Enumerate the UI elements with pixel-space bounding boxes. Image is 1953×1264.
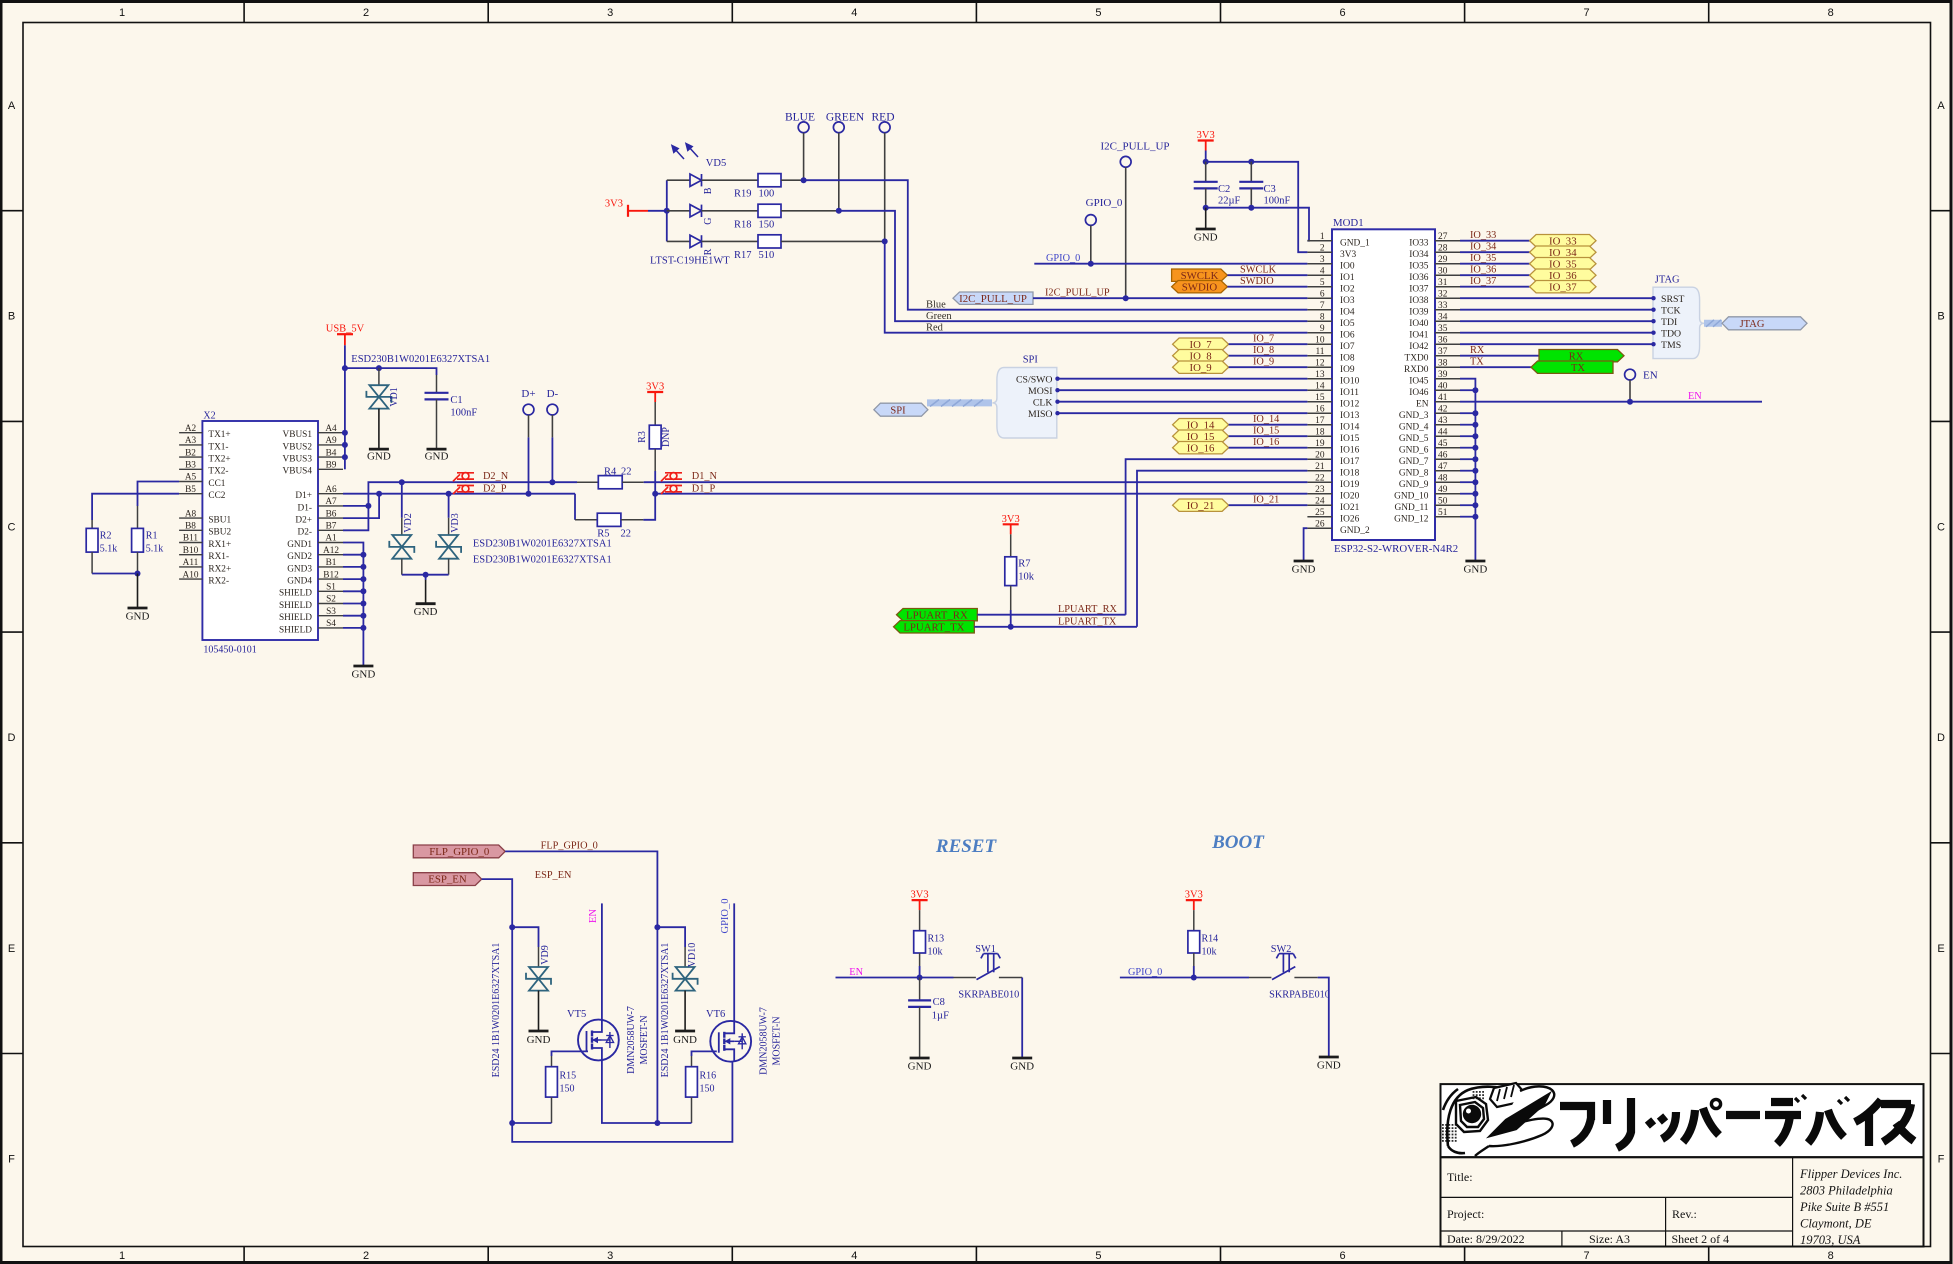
harness JTAG box bbox=[1653, 287, 1704, 358]
svg-text:D1+: D1+ bbox=[295, 491, 312, 501]
svg-text:GND_3: GND_3 bbox=[1399, 411, 1429, 421]
TVS diode VD10 bbox=[676, 967, 695, 979]
logo katakana long-dash bbox=[1726, 1111, 1760, 1119]
svg-text:RXD0: RXD0 bbox=[1404, 365, 1429, 375]
svg-text:GND: GND bbox=[351, 669, 375, 681]
port RX bbox=[1539, 350, 1624, 362]
port IO_34 bbox=[1530, 246, 1596, 258]
svg-text:8: 8 bbox=[1320, 313, 1325, 323]
svg-text:GND: GND bbox=[1463, 564, 1487, 576]
X2 pin A1 GND1 bbox=[318, 542, 343, 544]
X2 pin A10 RX2- bbox=[179, 578, 202, 580]
svg-text:ESP_EN: ESP_EN bbox=[535, 870, 572, 881]
svg-text:CC1: CC1 bbox=[208, 479, 225, 489]
svg-text:7: 7 bbox=[1584, 7, 1590, 19]
svg-text:CLK: CLK bbox=[1033, 397, 1053, 408]
X2 pin B2 TX2+ bbox=[179, 456, 202, 458]
svg-text:SWDIO: SWDIO bbox=[1182, 281, 1218, 293]
lead R1 top bbox=[137, 506, 139, 528]
X2 pin B9 VBUS4 bbox=[318, 468, 343, 470]
junction shield row 13 bbox=[360, 588, 366, 594]
svg-text:100: 100 bbox=[759, 189, 775, 200]
wire IO_21 bbox=[1229, 504, 1308, 506]
svg-text:F: F bbox=[8, 1154, 15, 1166]
svg-text:51: 51 bbox=[1438, 508, 1448, 518]
logo dolphin eye bbox=[1463, 1105, 1481, 1123]
X2 pin A8 SBU1 bbox=[179, 517, 202, 519]
svg-text:IO36: IO36 bbox=[1409, 273, 1429, 283]
svg-text:35: 35 bbox=[1438, 324, 1448, 334]
frame column tick 7 bbox=[1708, 2, 1710, 23]
svg-text:4: 4 bbox=[1320, 267, 1325, 277]
MOD1 pin 48 GND_9 bbox=[1435, 481, 1460, 483]
wire 3V3 to C2 junction bbox=[1205, 151, 1207, 162]
svg-text:22µF: 22µF bbox=[1218, 196, 1241, 207]
svg-text:EN: EN bbox=[1688, 391, 1702, 402]
svg-text:GND_7: GND_7 bbox=[1399, 457, 1429, 467]
junction shield row 14 bbox=[360, 601, 366, 607]
svg-text:C3: C3 bbox=[1264, 184, 1276, 195]
svg-text:36: 36 bbox=[1438, 336, 1448, 346]
svg-text:15: 15 bbox=[1315, 393, 1325, 403]
junction rail pin 45 bbox=[1472, 445, 1478, 451]
svg-text:ESD230B1W0201E6327XTSA1: ESD230B1W0201E6327XTSA1 bbox=[473, 539, 612, 550]
svg-text:RX2-: RX2- bbox=[208, 577, 229, 587]
wire A7 to riser bbox=[343, 505, 368, 507]
wire D+ drop upper bbox=[528, 415, 530, 437]
transistor VT6 DMN2058UW-7 bbox=[710, 1021, 751, 1062]
svg-text:E: E bbox=[1937, 943, 1944, 955]
wire BLUE drop bbox=[803, 133, 805, 180]
svg-text:B: B bbox=[1937, 311, 1944, 323]
junction R3/R5 on D_P bbox=[652, 491, 658, 497]
svg-text:VBUS3: VBUS3 bbox=[283, 455, 313, 465]
svg-text:SPI: SPI bbox=[890, 405, 906, 416]
svg-text:39: 39 bbox=[1438, 370, 1448, 380]
svg-text:IO0: IO0 bbox=[1340, 261, 1355, 271]
wire GREEN drop bbox=[838, 133, 840, 211]
svg-text:R4: R4 bbox=[604, 466, 617, 477]
svg-text:JTAG: JTAG bbox=[1655, 275, 1680, 286]
MOD1 pin 46 GND_7 bbox=[1435, 458, 1460, 460]
port IO_15 bbox=[1173, 430, 1229, 442]
svg-text:16: 16 bbox=[1315, 405, 1325, 415]
svg-text:2: 2 bbox=[363, 7, 369, 19]
svg-text:GND4: GND4 bbox=[287, 577, 312, 587]
svg-text:IO_15: IO_15 bbox=[1253, 426, 1279, 437]
svg-text:FLP_GPIO_0: FLP_GPIO_0 bbox=[541, 841, 598, 852]
svg-text:IO40: IO40 bbox=[1409, 319, 1429, 329]
diff-pair glyph D1_P bbox=[661, 485, 682, 494]
port LPUART_RX bbox=[897, 609, 978, 621]
junction VBUS 3 bbox=[342, 454, 348, 460]
svg-text:D1_N: D1_N bbox=[692, 471, 718, 482]
junction FLP / source rail bbox=[654, 1120, 660, 1126]
wire shield row 13 bbox=[343, 590, 363, 592]
svg-text:SBU2: SBU2 bbox=[208, 528, 231, 538]
X2 pin A3 TX1- bbox=[179, 444, 202, 446]
X2 pin B3 TX2- bbox=[179, 468, 202, 470]
wire pin 47 to rail bbox=[1460, 470, 1475, 472]
svg-text:A9: A9 bbox=[325, 436, 337, 446]
wire pin 45 to rail bbox=[1460, 447, 1475, 449]
svg-text:MOD1: MOD1 bbox=[1333, 217, 1364, 229]
svg-text:DMN2058UW-7: DMN2058UW-7 bbox=[759, 1007, 770, 1075]
svg-text:IO41: IO41 bbox=[1409, 330, 1429, 340]
port ESP_EN bbox=[413, 873, 481, 886]
title block grid bbox=[1441, 1157, 1924, 1246]
svg-text:LTST-C19HE1WT: LTST-C19HE1WT bbox=[650, 256, 730, 267]
MOD1 pin 10 IO7 bbox=[1307, 343, 1332, 345]
svg-text:Project:: Project: bbox=[1447, 1207, 1484, 1221]
svg-text:IO_34: IO_34 bbox=[1470, 242, 1496, 253]
svg-text:GND_9: GND_9 bbox=[1399, 480, 1429, 490]
junction ESP_EN / R15 bbox=[509, 1120, 515, 1126]
svg-text:IO19: IO19 bbox=[1340, 480, 1360, 490]
svg-text:S2: S2 bbox=[326, 595, 336, 605]
svg-text:LPUART_TX: LPUART_TX bbox=[1058, 616, 1117, 627]
MOD1 pin 34 IO40 bbox=[1435, 320, 1460, 322]
svg-text:IO10: IO10 bbox=[1340, 376, 1360, 386]
lead R13 top bbox=[919, 910, 921, 931]
svg-text:105450-0101: 105450-0101 bbox=[203, 645, 256, 656]
svg-text:ESP_EN: ESP_EN bbox=[428, 874, 467, 886]
junction C2 top bbox=[1203, 159, 1209, 165]
MOD1 pin 5 IO2 bbox=[1307, 286, 1332, 288]
MOD1 pin 22 IO19 bbox=[1307, 481, 1332, 483]
X2 pin A9 VBUS2 bbox=[318, 444, 343, 446]
svg-text:A8: A8 bbox=[185, 509, 197, 519]
svg-text:Blue: Blue bbox=[926, 299, 946, 310]
svg-text:GND: GND bbox=[527, 1034, 551, 1046]
svg-text:R14: R14 bbox=[1202, 934, 1219, 945]
wire R7 to LPUART_TX bbox=[1010, 610, 1012, 627]
wire VBUS rail bbox=[344, 345, 346, 469]
MOD1 pin 26 GND_2 bbox=[1307, 527, 1332, 529]
svg-text:GND_5: GND_5 bbox=[1399, 434, 1429, 444]
svg-text:24: 24 bbox=[1315, 497, 1325, 507]
bus SPI squiggle bbox=[927, 400, 992, 407]
svg-text:GPIO_0: GPIO_0 bbox=[1086, 197, 1123, 209]
svg-text:TCK: TCK bbox=[1661, 305, 1681, 316]
svg-text:GND: GND bbox=[425, 451, 449, 463]
svg-text:MOSFET-N: MOSFET-N bbox=[639, 1015, 650, 1064]
lead R14 bottom bbox=[1193, 953, 1195, 966]
MOD1 pin 44 GND_5 bbox=[1435, 435, 1460, 437]
MOD1 pin 37 TXD0 bbox=[1435, 355, 1460, 357]
LED VD5 element R bbox=[690, 235, 702, 247]
junction C3 top bbox=[1248, 159, 1254, 165]
svg-text:IO20: IO20 bbox=[1340, 491, 1360, 501]
svg-text:DMN2058UW-7: DMN2058UW-7 bbox=[626, 1006, 637, 1074]
MOD1 pin 17 IO14 bbox=[1307, 424, 1332, 426]
svg-text:26: 26 bbox=[1315, 520, 1325, 530]
svg-text:GND: GND bbox=[1292, 564, 1316, 576]
lead SW1 right bbox=[999, 977, 1022, 979]
power 3V3 (R14) bbox=[1193, 900, 1195, 910]
MOD1 pin 4 IO1 bbox=[1307, 274, 1332, 276]
lead C2 top bbox=[1205, 162, 1207, 182]
svg-text:48: 48 bbox=[1438, 474, 1448, 484]
svg-text:EN: EN bbox=[849, 967, 863, 978]
svg-text:VT6: VT6 bbox=[706, 1009, 725, 1020]
X2 pin A4 VBUS1 bbox=[318, 432, 343, 434]
svg-text:1: 1 bbox=[119, 7, 125, 19]
svg-text:IO16: IO16 bbox=[1340, 445, 1360, 455]
wire GPIO_0 drop bbox=[1090, 226, 1092, 264]
svg-text:VBUS4: VBUS4 bbox=[283, 467, 313, 477]
MOD1 pin 38 RXD0 bbox=[1435, 366, 1460, 368]
svg-text:5.1k: 5.1k bbox=[146, 544, 164, 555]
MOD1 pin 16 IO13 bbox=[1307, 412, 1332, 414]
svg-text:TX: TX bbox=[1571, 363, 1585, 374]
junction VD3 bbox=[446, 491, 452, 497]
lead R16 top bbox=[691, 1056, 693, 1067]
lead R19 right bbox=[781, 179, 804, 181]
wire pin 51 to rail bbox=[1460, 516, 1475, 518]
svg-text:ESD230B1W0201E6327XTSA1: ESD230B1W0201E6327XTSA1 bbox=[351, 354, 490, 365]
wire I2C_PULL_UP bbox=[1033, 297, 1307, 299]
svg-text:D1_P: D1_P bbox=[692, 483, 716, 494]
lead VD3 top bbox=[448, 518, 450, 535]
port IO_8 bbox=[1173, 350, 1229, 362]
svg-text:GND: GND bbox=[908, 1061, 932, 1073]
svg-text:1: 1 bbox=[1320, 232, 1325, 242]
wire I2C_PULL_UP drop bbox=[1125, 167, 1127, 298]
lead VD2 bottom bbox=[401, 559, 403, 575]
wire CC2 to R2 bbox=[92, 494, 179, 520]
svg-text:IO18: IO18 bbox=[1340, 468, 1360, 478]
MOD1 pin 41 EN bbox=[1435, 401, 1460, 403]
frame row tick 4 bbox=[2, 842, 24, 844]
svg-text:R18: R18 bbox=[734, 219, 752, 230]
MOD1 pin 43 GND_4 bbox=[1435, 424, 1460, 426]
svg-text:VD2: VD2 bbox=[403, 513, 414, 532]
svg-text:E: E bbox=[8, 943, 15, 955]
svg-text:VD1: VD1 bbox=[389, 387, 400, 406]
svg-text:GND_10: GND_10 bbox=[1394, 491, 1429, 501]
lead R13 bottom bbox=[919, 953, 921, 966]
svg-text:GND: GND bbox=[673, 1034, 697, 1046]
svg-text:D+: D+ bbox=[521, 388, 535, 400]
svg-text:IO_14: IO_14 bbox=[1253, 414, 1279, 425]
sheet-entry circle I2C_PULL_UP bbox=[1120, 156, 1131, 167]
connector X2 body bbox=[202, 421, 318, 640]
junction rail pin 47 bbox=[1472, 468, 1478, 474]
svg-text:S1: S1 bbox=[326, 583, 336, 593]
port JTAG bbox=[1722, 317, 1807, 330]
junction VD2/VD3 gnd bbox=[423, 572, 429, 578]
MOD1 pin 47 GND_8 bbox=[1435, 470, 1460, 472]
lead R2 top bbox=[91, 520, 93, 528]
harness JTAG pin TDI bbox=[1460, 320, 1652, 322]
junction USB_5V branch bbox=[342, 365, 348, 371]
svg-text:SHIELD: SHIELD bbox=[279, 601, 312, 611]
svg-text:CC2: CC2 bbox=[208, 491, 225, 501]
svg-text:D2_N: D2_N bbox=[483, 471, 509, 482]
svg-text:TX2-: TX2- bbox=[208, 467, 228, 477]
wire VD2 drop bbox=[401, 482, 403, 518]
svg-text:EN: EN bbox=[1416, 399, 1429, 409]
svg-text:SHIELD: SHIELD bbox=[279, 613, 312, 623]
IC MOD1 body bbox=[1332, 229, 1435, 540]
logo katakana de bbox=[1765, 1095, 1806, 1144]
svg-text:40: 40 bbox=[1438, 382, 1448, 392]
lead C1 bottom bbox=[436, 399, 438, 449]
svg-text:IO38: IO38 bbox=[1409, 296, 1429, 306]
svg-text:GND_12: GND_12 bbox=[1394, 514, 1429, 524]
svg-text:3V3: 3V3 bbox=[1340, 250, 1356, 260]
svg-text:A1: A1 bbox=[325, 534, 337, 544]
wire shield rail bbox=[343, 543, 363, 667]
svg-text:IO8: IO8 bbox=[1340, 353, 1355, 363]
lead R16 bottom bbox=[691, 1097, 693, 1123]
resistor R4 bbox=[598, 476, 622, 489]
svg-text:SBU1: SBU1 bbox=[208, 516, 231, 526]
svg-text:3V3: 3V3 bbox=[911, 890, 929, 901]
TVS diode VD1 bbox=[369, 385, 388, 397]
svg-text:43: 43 bbox=[1438, 416, 1448, 426]
wire VD3 drop bbox=[448, 494, 450, 518]
lead R18 left bbox=[702, 210, 759, 212]
svg-text:B3: B3 bbox=[185, 461, 196, 471]
svg-text:IO17: IO17 bbox=[1340, 457, 1360, 467]
svg-text:Flipper Devices Inc.: Flipper Devices Inc. bbox=[1799, 1167, 1902, 1181]
svg-text:R2: R2 bbox=[100, 531, 112, 542]
svg-text:GPIO_0: GPIO_0 bbox=[1046, 253, 1080, 264]
svg-text:IO15: IO15 bbox=[1340, 434, 1360, 444]
junction R14 / GPIO_0 bbox=[1191, 975, 1197, 981]
svg-text:GND_2: GND_2 bbox=[1340, 526, 1370, 536]
X2 pin B8 SBU2 bbox=[179, 529, 202, 531]
wire RED drop bbox=[884, 133, 886, 242]
lead VD2 top bbox=[401, 518, 403, 535]
harness JTAG pin TCK bbox=[1460, 309, 1652, 311]
junction GREEN bbox=[836, 208, 842, 214]
resistor R14 bbox=[1188, 931, 1200, 953]
svg-text:11: 11 bbox=[1315, 347, 1324, 357]
svg-text:B: B bbox=[703, 187, 714, 194]
svg-text:Rev.:: Rev.: bbox=[1672, 1207, 1697, 1221]
frame row tick 1 bbox=[2, 210, 24, 212]
svg-text:R1: R1 bbox=[146, 531, 158, 542]
lead VD3 bottom bbox=[448, 559, 450, 575]
wire R15 gate link bbox=[552, 1051, 589, 1056]
X2 pin B10 RX1- bbox=[179, 554, 202, 556]
svg-text:A5: A5 bbox=[185, 473, 197, 483]
junction RED bbox=[882, 238, 888, 244]
wire net GPIO_0 (BOOT) bbox=[1120, 977, 1249, 979]
port IO_7 bbox=[1173, 338, 1229, 350]
svg-text:IO2: IO2 bbox=[1340, 284, 1355, 294]
svg-text:49: 49 bbox=[1438, 485, 1448, 495]
resistor R3 bbox=[649, 425, 661, 449]
svg-text:USB_5V: USB_5V bbox=[326, 324, 365, 335]
svg-text:IO11: IO11 bbox=[1340, 388, 1359, 398]
svg-text:SKRPABE010: SKRPABE010 bbox=[1269, 990, 1330, 1001]
harness JTAG pin TMS bbox=[1460, 343, 1652, 345]
sheet-entry circle BLUE bbox=[798, 122, 809, 133]
svg-text:D-: D- bbox=[547, 388, 559, 400]
resistor R15 bbox=[546, 1067, 558, 1097]
lead VD9 top bbox=[538, 947, 540, 967]
svg-text:B12: B12 bbox=[323, 570, 339, 580]
wire VT6 drain up (net GPIO_0) bbox=[733, 903, 735, 1021]
svg-text:IO33: IO33 bbox=[1409, 238, 1429, 248]
svg-text:46: 46 bbox=[1438, 451, 1448, 461]
svg-text:44: 44 bbox=[1438, 428, 1448, 438]
junction BLUE bbox=[801, 177, 807, 183]
lead VD10 top bbox=[684, 947, 686, 967]
svg-text:3V3: 3V3 bbox=[1197, 130, 1215, 141]
logo katakana ba bbox=[1808, 1097, 1849, 1143]
logo katakana small-tsu bbox=[1648, 1112, 1676, 1139]
MOD1 pin 51 GND_12 bbox=[1435, 516, 1460, 518]
svg-text:A10: A10 bbox=[182, 570, 198, 580]
X2 pin B6 D2+ bbox=[318, 517, 343, 519]
X2 pin A6 D1+ bbox=[318, 493, 343, 495]
wire D- drop lower bbox=[551, 437, 553, 482]
wire pin 44 to rail bbox=[1460, 435, 1475, 437]
port SWDIO bbox=[1172, 281, 1228, 293]
switch SW2 SKRPABE010 bbox=[1272, 954, 1296, 980]
lead SW2 left bbox=[1249, 977, 1271, 979]
svg-text:F: F bbox=[1938, 1154, 1945, 1166]
svg-text:GND: GND bbox=[1194, 232, 1218, 244]
junction shield row 11 bbox=[360, 564, 366, 570]
svg-text:B10: B10 bbox=[183, 546, 199, 556]
lead R3 top bbox=[654, 402, 656, 425]
wire to VD gnd bbox=[425, 575, 427, 580]
junction rail pin 42 bbox=[1472, 410, 1478, 416]
wire LPUART_TX bbox=[974, 626, 1137, 628]
resistor R1 bbox=[132, 528, 144, 552]
svg-text:G: G bbox=[703, 218, 714, 225]
wire LPUART_RX bbox=[977, 614, 1125, 616]
logo katakana i bbox=[1855, 1100, 1881, 1146]
svg-text:30: 30 bbox=[1438, 267, 1448, 277]
svg-text:IO14: IO14 bbox=[1340, 422, 1360, 432]
junction EN bbox=[1627, 399, 1633, 405]
svg-text:18: 18 bbox=[1315, 428, 1325, 438]
svg-text:IO_9: IO_9 bbox=[1253, 357, 1274, 368]
diff-pair glyph D2_N bbox=[453, 473, 474, 482]
svg-text:ESD230B1W0201E6327XTSA1: ESD230B1W0201E6327XTSA1 bbox=[473, 554, 612, 565]
svg-text:100nF: 100nF bbox=[1264, 196, 1291, 207]
svg-text:SWCLK: SWCLK bbox=[1240, 265, 1277, 276]
wire VBUS to VD1/C1 bbox=[345, 368, 437, 375]
svg-text:FLP_GPIO_0: FLP_GPIO_0 bbox=[429, 846, 489, 858]
MOD1 pin 42 GND_3 bbox=[1435, 412, 1460, 414]
svg-text:MISO: MISO bbox=[1028, 409, 1053, 420]
logo katakana ri bbox=[1607, 1098, 1631, 1148]
svg-text:B8: B8 bbox=[185, 522, 196, 532]
lead C2 bottom bbox=[1205, 188, 1207, 207]
svg-text:10k: 10k bbox=[928, 947, 943, 958]
X2 pin B5 CC2 bbox=[179, 493, 202, 495]
junction D1- on riser bbox=[365, 503, 371, 509]
svg-text:TDI: TDI bbox=[1661, 317, 1677, 328]
lead R15 bottom bbox=[551, 1097, 553, 1123]
MOD1 pin 21 IO18 bbox=[1307, 470, 1332, 472]
svg-text:ESD24 1B1W0201E6327XTSA1: ESD24 1B1W0201E6327XTSA1 bbox=[660, 943, 671, 1078]
lead C3 bottom bbox=[1250, 188, 1252, 207]
wire IO_33 bbox=[1460, 240, 1530, 242]
MOD1 pin 30 IO36 bbox=[1435, 274, 1460, 276]
svg-text:D2_P: D2_P bbox=[483, 483, 507, 494]
svg-text:B9: B9 bbox=[326, 461, 337, 471]
resistor R13 bbox=[914, 931, 926, 953]
